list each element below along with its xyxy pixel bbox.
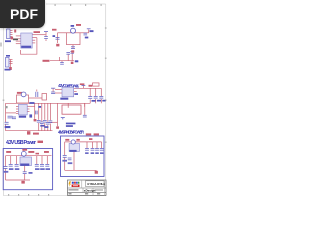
svg-text:4.3V USB Power: 4.3V USB Power: [6, 140, 36, 146]
svg-text:GY8GA-DV8-A: GY8GA-DV8-A: [87, 182, 105, 186]
svg-text:4.3V STANDBY POWER: 4.3V STANDBY POWER: [58, 130, 85, 135]
svg-text:xDesign: xDesign: [84, 189, 96, 193]
